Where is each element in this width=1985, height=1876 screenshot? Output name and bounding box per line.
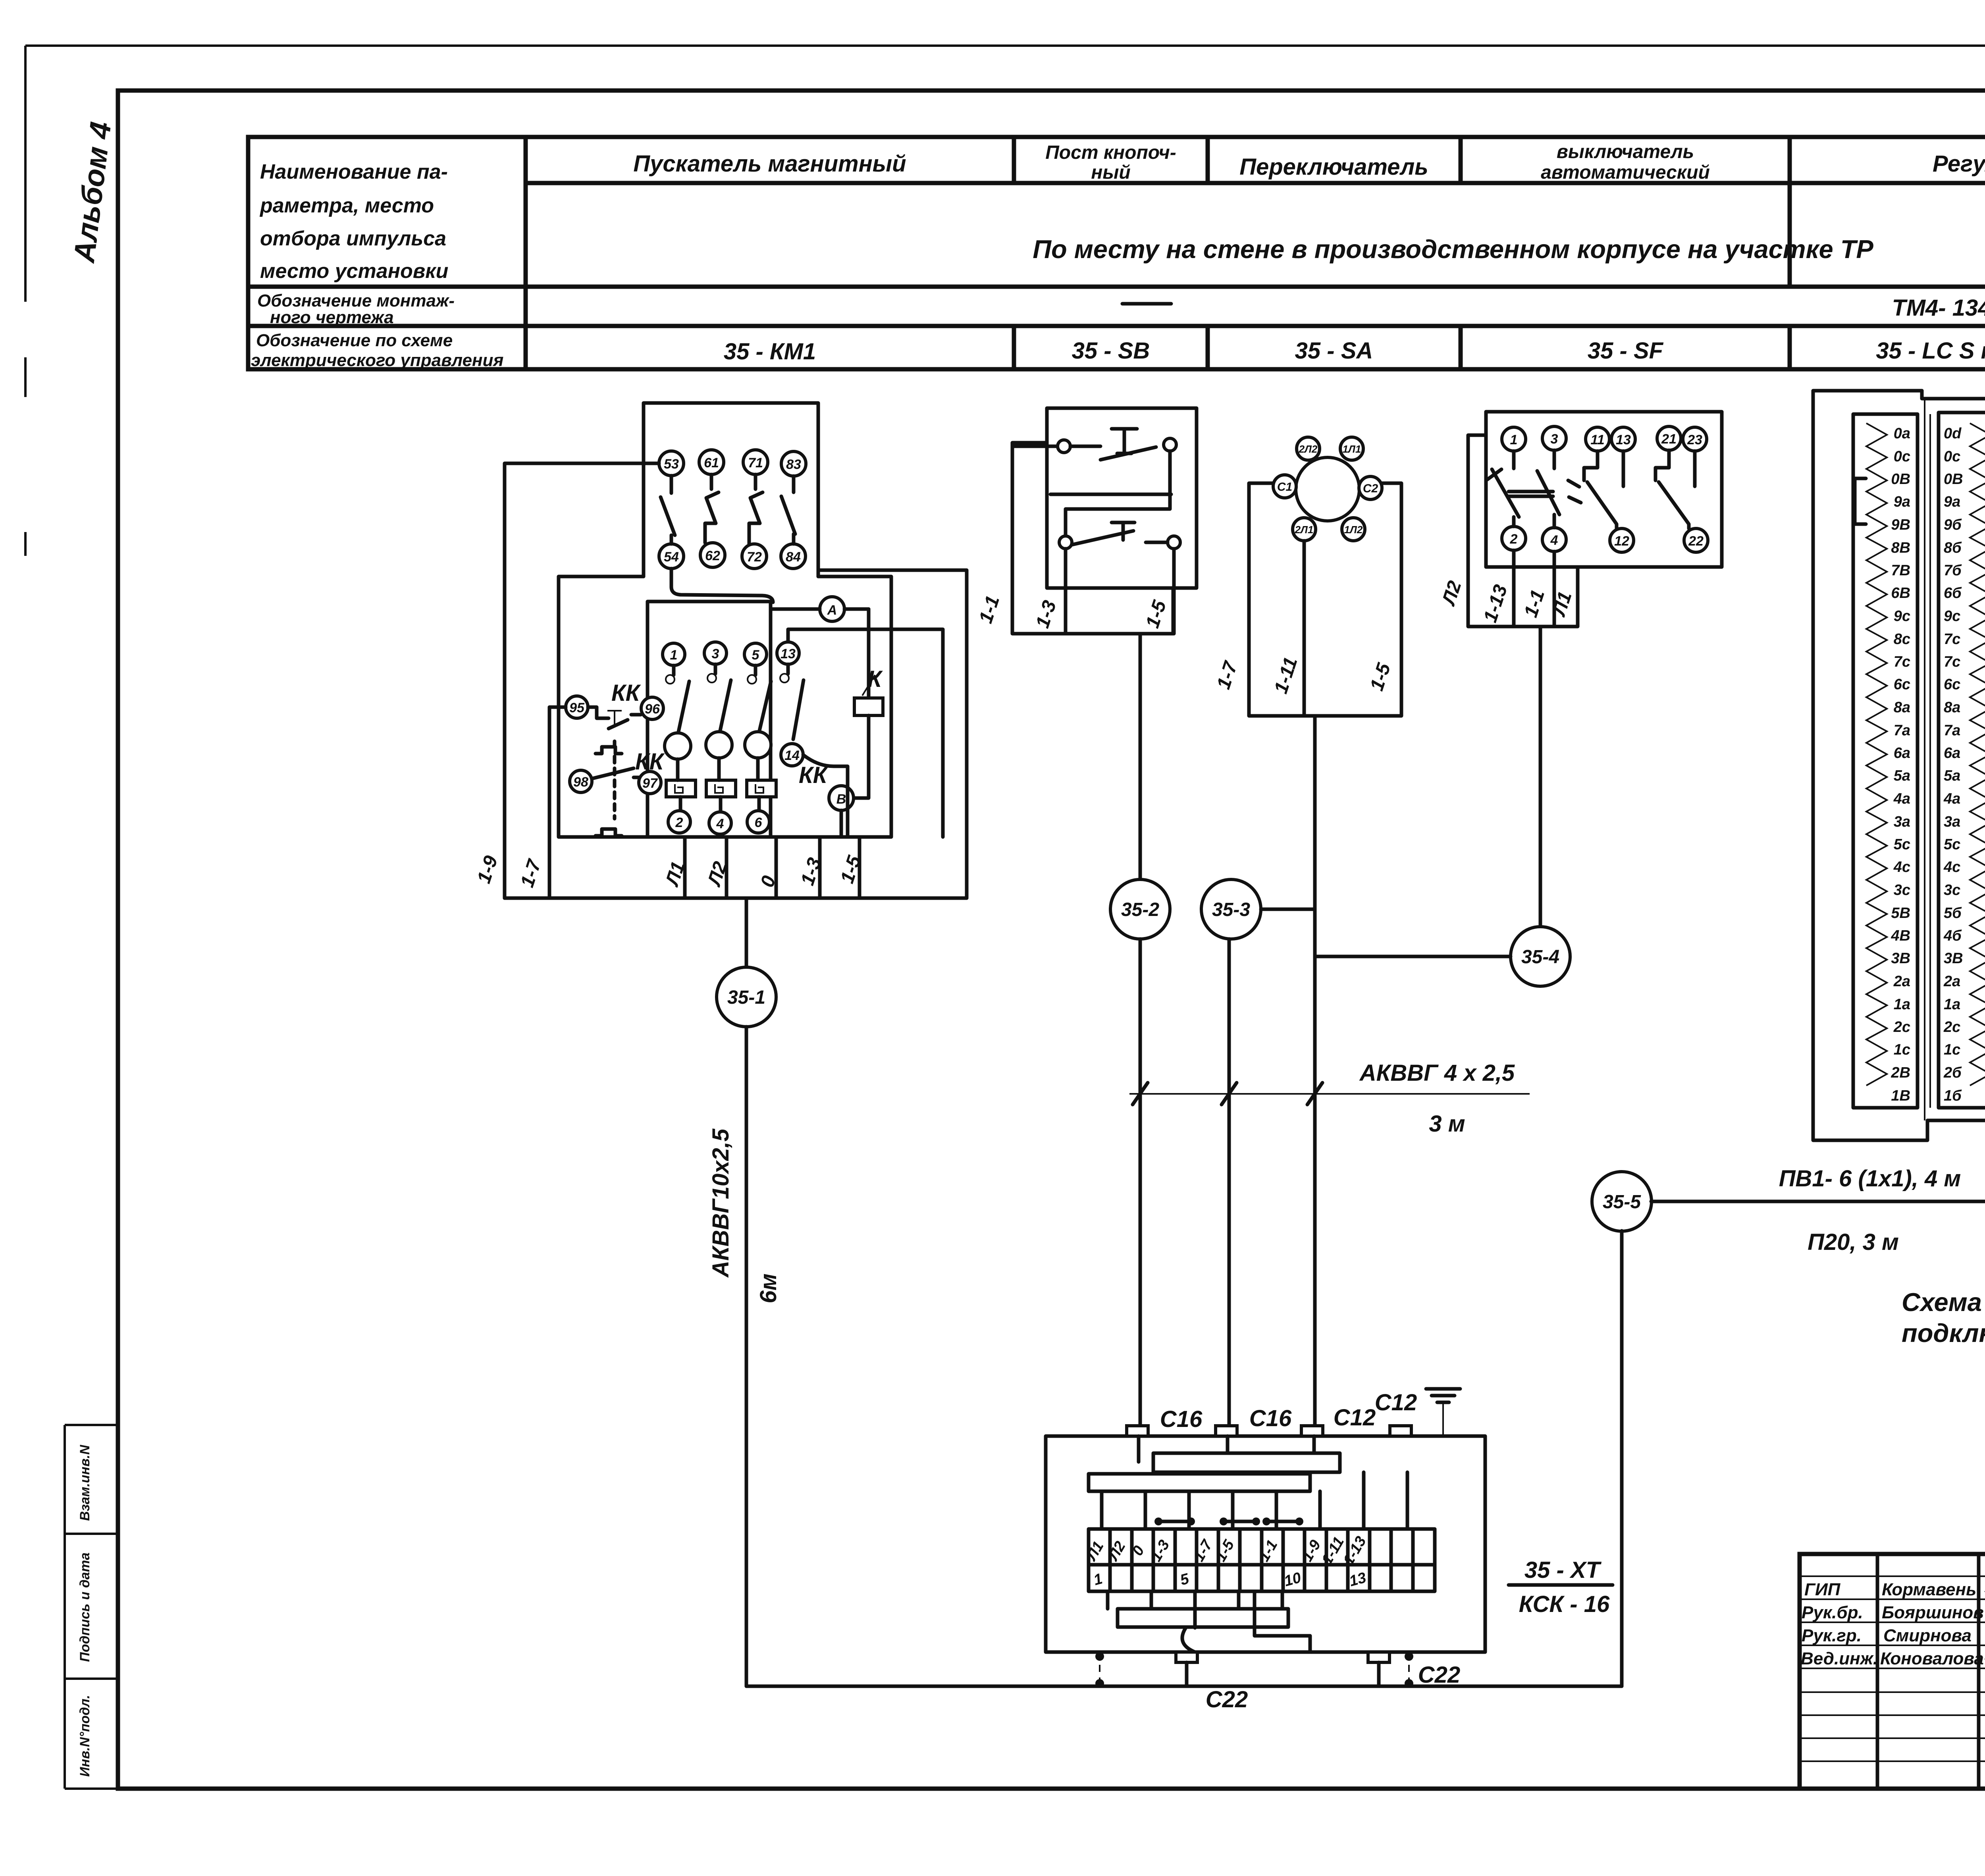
svg-text:1б: 1б — [1944, 1087, 1962, 1104]
svg-text:97: 97 — [642, 776, 658, 791]
svg-text:8В: 8В — [1891, 540, 1910, 556]
svg-text:С12: С12 — [1375, 1390, 1417, 1415]
selector switch 35-SA box — [1249, 483, 1401, 716]
svg-text:9с: 9с — [1894, 608, 1910, 625]
svg-text:96: 96 — [645, 702, 660, 717]
table row label: parameter name — [259, 160, 448, 283]
svg-text:72: 72 — [747, 549, 762, 565]
bottom bus wire — [746, 1685, 1622, 1688]
signature roles — [1801, 1580, 1878, 1668]
svg-text:Регулятор - сигнализатор уро: Регулятор - сигнализатор уровня — [1933, 151, 1985, 177]
svg-text:выключатель: выключатель — [1557, 141, 1694, 162]
aux contact 83-84 — [781, 476, 795, 544]
svg-text:7б: 7б — [1944, 562, 1962, 579]
dashed trip linkage — [613, 756, 617, 819]
wire to stop button — [1012, 445, 1058, 448]
breaker tie bar — [1509, 492, 1553, 496]
svg-text:4б: 4б — [1943, 927, 1962, 944]
svg-text:35-4: 35-4 — [1521, 947, 1559, 968]
svg-text:электрического управления: электрического управления — [251, 351, 504, 370]
svg-text:35 - КМ1: 35 - КМ1 — [724, 339, 816, 364]
stop button NC contact — [1070, 429, 1156, 460]
wire into node A — [771, 607, 869, 611]
wire to 35-1 — [745, 898, 748, 967]
breaker terminal 2 — [1502, 526, 1526, 550]
svg-text:53: 53 — [664, 457, 679, 472]
magnetic starter 35-KM1 aux contact box — [644, 403, 818, 576]
svg-text:1с: 1с — [1944, 1041, 1960, 1058]
pole 3 contact — [714, 664, 717, 674]
svg-text:отбора импульса: отбора импульса — [260, 227, 446, 250]
switch terminal 2L2 — [1297, 437, 1320, 460]
svg-text:1а: 1а — [1944, 996, 1960, 1013]
svg-text:35 - SA: 35 - SA — [1295, 338, 1373, 364]
svg-text:КК: КК — [611, 680, 641, 706]
thermal element pole1 — [666, 780, 696, 797]
svg-text:22: 22 — [1688, 534, 1704, 549]
terminal labels right column — [1943, 425, 1963, 1104]
wire 35-5 down to bottom bus — [1620, 1231, 1624, 1686]
level regulator wrap box top — [1922, 391, 1985, 433]
starter terminal 6 — [747, 811, 769, 833]
connector stub C12a — [1301, 1426, 1323, 1436]
loom bundle upper — [1153, 1453, 1340, 1472]
starter aux terminal 83 — [781, 451, 806, 476]
svg-text:0с: 0с — [1944, 448, 1960, 465]
svg-text:62: 62 — [705, 548, 720, 563]
thermal release contact 95-96 — [588, 707, 641, 729]
svg-text:Коновалова: Коновалова — [1880, 1649, 1984, 1668]
svg-text:По месту на стене в прои: По месту на стене в производственном кор… — [1033, 235, 1873, 264]
breaker terminal 4 — [1542, 528, 1566, 551]
loom bundle lower — [1089, 1474, 1310, 1491]
aux terminal 98 — [570, 770, 592, 792]
start button terminal right — [1168, 536, 1180, 549]
table row label: mounting drawing — [257, 291, 455, 327]
wire top right outer — [818, 570, 967, 898]
heater symbol upper — [595, 741, 622, 754]
svg-text:6с: 6с — [1944, 676, 1960, 693]
thermal element pole5 — [747, 780, 776, 797]
svg-text:9с: 9с — [1944, 608, 1960, 625]
svg-text:6м: 6м — [755, 1273, 781, 1303]
svg-text:5а: 5а — [1944, 767, 1960, 784]
svg-text:Инв.N°подл.: Инв.N°подл. — [77, 1695, 93, 1777]
svg-text:95: 95 — [569, 700, 585, 715]
separator line in button box — [1050, 493, 1171, 496]
aux terminal 14 — [781, 744, 803, 766]
wire push button to 35-2 — [1139, 634, 1142, 879]
circuit breaker 35-SF main box — [1486, 412, 1722, 567]
svg-text:4: 4 — [716, 816, 724, 831]
bottom connector stub C22b — [1368, 1652, 1389, 1662]
svg-text:14: 14 — [784, 748, 800, 763]
svg-text:7а: 7а — [1944, 722, 1960, 739]
left stamp strip cells — [65, 1425, 118, 1789]
cable label PV1-6(1x1) 4m — [1779, 1166, 1961, 1255]
connector stub C16b — [1216, 1426, 1237, 1436]
coil K — [854, 666, 883, 715]
starter terminal 2 — [668, 811, 690, 833]
motor contact circle pole1 — [665, 733, 691, 759]
cable circle 35-2 — [1110, 879, 1170, 939]
svg-text:35 - SF: 35 - SF — [1588, 338, 1664, 364]
wire C22 right to bus — [1377, 1662, 1381, 1686]
switch terminal 1L1 — [1340, 437, 1363, 460]
cable circle 35-1 — [717, 967, 776, 1027]
svg-text:4В: 4В — [1891, 927, 1910, 944]
level regulator 35-LCS outer box — [1813, 391, 1927, 1140]
wire 35-3 down to terminal box — [1228, 939, 1231, 1426]
bottom connector stub C22a — [1176, 1652, 1197, 1662]
svg-text:12: 12 — [1614, 534, 1629, 549]
svg-text:0а: 0а — [1894, 425, 1910, 442]
svg-text:автоматический: автоматический — [1541, 162, 1710, 183]
terminal bridges — [1154, 1517, 1303, 1525]
wire 95 to rail 1-7 — [549, 707, 566, 898]
terminal strip body — [1089, 1529, 1435, 1591]
bottom terminal stub 1-5 — [858, 837, 861, 898]
svg-text:98: 98 — [573, 775, 588, 790]
svg-text:ный: ный — [1091, 162, 1130, 183]
svg-text:7с: 7с — [1944, 631, 1960, 648]
level regulator inner box right — [1939, 413, 1985, 1108]
wire 13 upper right — [788, 629, 943, 837]
cable label AKVVG10x2.5 6m — [708, 1128, 781, 1303]
breaker terminal 13 — [1611, 427, 1635, 451]
selector switch rotor circle — [1296, 457, 1359, 521]
svg-text:1В: 1В — [1891, 1087, 1910, 1104]
svg-text:8б: 8б — [1944, 540, 1962, 556]
starter inner box — [648, 602, 771, 837]
svg-text:2Л1: 2Л1 — [1295, 524, 1314, 536]
start button NO contact — [1072, 523, 1168, 545]
svg-text:2с: 2с — [1943, 1019, 1960, 1035]
wire 54 to coil box — [671, 569, 773, 602]
svg-text:Наименование па-: Наименование па- — [260, 160, 448, 183]
svg-text:4а: 4а — [1943, 791, 1960, 807]
svg-text:7а: 7а — [1894, 722, 1910, 739]
starter aux terminal 54 — [659, 544, 684, 569]
svg-text:3а: 3а — [1944, 814, 1960, 830]
starter terminal 4 — [709, 812, 731, 834]
svg-text:9а: 9а — [1894, 494, 1910, 510]
svg-text:Вед.инж.: Вед.инж. — [1801, 1649, 1878, 1668]
svg-text:0d: 0d — [1944, 425, 1962, 442]
svg-text:2: 2 — [1510, 532, 1518, 547]
wire K to node B — [854, 715, 869, 798]
svg-text:35-2: 35-2 — [1121, 899, 1159, 920]
pole 1 contact — [672, 665, 676, 675]
svg-text:3с: 3с — [1944, 882, 1960, 898]
switch terminal C1 — [1273, 475, 1296, 498]
starter bottom bus — [505, 897, 967, 900]
svg-text:8а: 8а — [1944, 699, 1960, 716]
svg-text:9В: 9В — [1891, 517, 1910, 533]
svg-text:1: 1 — [1510, 432, 1518, 447]
title block outer — [1800, 1554, 1985, 1789]
level regulator inner box left — [1853, 414, 1918, 1108]
pole 13-14 contact — [786, 664, 790, 674]
svg-text:9б: 9б — [1944, 517, 1962, 533]
starter terminal 5 — [744, 643, 767, 665]
svg-text:Рук.гр.: Рук.гр. — [1802, 1626, 1862, 1645]
bottom terminal stub L1 — [683, 837, 687, 898]
cable group mark line — [1129, 1093, 1530, 1095]
svg-text:1а: 1а — [1894, 996, 1910, 1013]
svg-text:1с: 1с — [1894, 1041, 1910, 1058]
aux contact 53-54 — [661, 476, 675, 544]
thermal element pole3 — [706, 780, 736, 797]
svg-text:В: В — [836, 792, 846, 807]
svg-text:ного чертежа: ного чертежа — [270, 308, 394, 327]
circuit breaker sub box — [1468, 435, 1578, 627]
svg-text:5а: 5а — [1894, 767, 1910, 784]
aux contact 61-62 — [705, 474, 719, 543]
svg-text:3: 3 — [712, 646, 719, 661]
svg-text:Подпись и дата: Подпись и дата — [77, 1552, 93, 1662]
svg-text:ПВ1- 6 (1х1), 4 м: ПВ1- 6 (1х1), 4 м — [1779, 1166, 1961, 1192]
svg-text:23: 23 — [1687, 432, 1702, 447]
stop button terminal left — [1058, 440, 1070, 453]
svg-text:3 м: 3 м — [1429, 1111, 1465, 1137]
svg-text:2Л2: 2Л2 — [1299, 443, 1318, 455]
terminal strip wire labels — [1083, 1534, 1370, 1568]
svg-text:Бояршинов: Бояршинов — [1882, 1603, 1984, 1622]
wire tails into loom — [1139, 1436, 1314, 1462]
svg-text:Переключатель: Переключатель — [1239, 154, 1428, 180]
push button station 35-SB box upper — [1047, 408, 1197, 588]
starter main box — [559, 576, 891, 837]
motor contact circle pole3 — [706, 732, 732, 758]
aux terminal 95 — [566, 696, 588, 718]
wire B down — [840, 810, 843, 837]
starter aux terminal 84 — [781, 544, 806, 569]
svg-text:35-5: 35-5 — [1603, 1192, 1641, 1213]
breaker terminal 11 — [1586, 427, 1609, 451]
starter aux terminal 53 — [659, 451, 684, 476]
svg-text:5б: 5б — [1944, 905, 1962, 922]
switch terminal C2 — [1359, 476, 1382, 499]
wires aux bottom — [1514, 550, 1554, 627]
starter aux terminal 72 — [742, 544, 767, 569]
breaker terminal 1 — [1502, 427, 1526, 451]
NC contact 98-97 — [592, 768, 639, 779]
svg-text:С2: С2 — [1363, 482, 1378, 495]
svg-text:6б: 6б — [1944, 585, 1962, 602]
loom drop wires — [1102, 1472, 1407, 1529]
svg-text:АКВВГ10х2,5: АКВВГ10х2,5 — [708, 1128, 734, 1278]
svg-text:1Л2: 1Л2 — [1344, 524, 1363, 536]
svg-text:61: 61 — [704, 455, 719, 470]
wire switch drop to terminal box — [1313, 716, 1317, 1426]
node A circle — [820, 597, 844, 621]
wire 53 to left rail 1-9 — [505, 463, 659, 898]
wire 14 to right — [803, 755, 848, 837]
svg-text:6а: 6а — [1944, 745, 1960, 762]
svg-text:4с: 4с — [1893, 859, 1910, 875]
svg-text:84: 84 — [786, 549, 801, 565]
wire C22 left to bus — [1185, 1662, 1189, 1686]
stop button terminal right — [1164, 438, 1176, 451]
svg-text:С22: С22 — [1206, 1687, 1248, 1712]
svg-text:С12: С12 — [1334, 1405, 1376, 1431]
svg-text:4с: 4с — [1943, 859, 1960, 875]
svg-text:место установки: место установки — [260, 260, 448, 283]
svg-text:2а: 2а — [1943, 973, 1960, 990]
svg-text:54: 54 — [664, 549, 679, 565]
level regulator middle gap lines — [1925, 399, 1930, 1120]
starter terminal 13 — [777, 642, 799, 664]
connector stub C16a — [1127, 1426, 1148, 1436]
svg-text:0с: 0с — [1894, 448, 1910, 465]
svg-text:5В: 5В — [1891, 905, 1910, 922]
table row label: designation in control diagram — [251, 331, 504, 370]
terminal labels left column — [1891, 425, 1910, 1104]
svg-text:7с: 7с — [1894, 654, 1910, 670]
svg-text:1: 1 — [670, 648, 678, 663]
wire 35-4 link left — [1315, 955, 1511, 958]
starter aux terminal 71 — [743, 450, 768, 474]
title block signature grid — [1800, 1554, 1985, 1789]
start button terminal left — [1059, 536, 1072, 549]
wire A to coil K — [867, 609, 871, 698]
aux terminal 96 — [641, 697, 663, 719]
svg-text:2В: 2В — [1891, 1064, 1910, 1081]
left column jumper bracket — [1855, 478, 1866, 524]
svg-text:8а: 8а — [1894, 699, 1910, 716]
svg-text:35 - LC S поз. 1: 35 - LC S поз. 1 — [1876, 338, 1985, 364]
svg-text:21: 21 — [1661, 432, 1677, 447]
cable label AKVVG 4x2.5 3m — [1359, 1060, 1515, 1137]
wire start button down — [1066, 549, 1174, 634]
left column resistor zigzag — [1866, 423, 1887, 1085]
push button station box lower — [1012, 443, 1173, 634]
bottom terminal stub 1-3 — [818, 837, 822, 898]
svg-text:3В: 3В — [1891, 950, 1910, 967]
svg-text:6: 6 — [755, 815, 763, 830]
wire 35-5 to regulator — [1651, 1200, 1985, 1203]
svg-text:ГИП: ГИП — [1804, 1580, 1841, 1599]
junction dash-dot left — [1095, 1652, 1104, 1688]
svg-text:35-1: 35-1 — [727, 987, 765, 1008]
svg-text:6В: 6В — [1891, 585, 1910, 602]
svg-text:А: А — [827, 603, 837, 618]
right column resistor zigzag — [1970, 423, 1985, 1085]
terminal strip numbers — [1092, 1569, 1368, 1590]
starter aux terminal 62 — [700, 543, 725, 567]
wire 35-3 link to switch drop — [1261, 908, 1315, 911]
svg-text:3с: 3с — [1894, 882, 1910, 898]
svg-text:ТМ4- 134 -86: ТМ4- 134 -86 — [1892, 295, 1985, 321]
svg-text:1Л1: 1Л1 — [1343, 443, 1361, 455]
svg-text:7В: 7В — [1891, 562, 1910, 579]
sheet outer thin border top — [25, 44, 1985, 47]
starter aux terminal 61 — [699, 450, 724, 474]
svg-text:5с: 5с — [1894, 836, 1910, 853]
svg-text:К: К — [867, 666, 883, 692]
level regulator bottom steps — [1927, 1108, 1985, 1120]
aux contact 71-72 — [749, 474, 763, 544]
switch terminal 2L1 — [1293, 518, 1316, 541]
pole 5 contact — [754, 665, 757, 675]
svg-text:6а: 6а — [1894, 745, 1910, 762]
svg-text:Кормавень: Кормавень — [1882, 1580, 1976, 1599]
breaker terminal 23 — [1683, 427, 1707, 451]
svg-text:Рук.бр.: Рук.бр. — [1802, 1603, 1863, 1622]
svg-text:Обозначение по схеме: Обозначение по схеме — [256, 331, 453, 350]
svg-text:4: 4 — [1550, 533, 1558, 548]
breaker aux contact 21-22 — [1655, 450, 1695, 528]
cable AKVVG10x2.5 wire down — [745, 1027, 748, 1686]
svg-text:КК: КК — [799, 762, 829, 788]
svg-text:Взам.инв.N: Взам.инв.N — [77, 1444, 93, 1521]
svg-text:С22: С22 — [1418, 1662, 1460, 1688]
signature names — [1880, 1580, 1984, 1668]
sheet outer thin border left (broken) — [24, 46, 27, 556]
svg-text:2б: 2б — [1943, 1064, 1962, 1081]
svg-text:35-3: 35-3 — [1212, 899, 1250, 920]
svg-text:11: 11 — [1590, 432, 1604, 447]
svg-text:13: 13 — [781, 646, 796, 661]
svg-text:5: 5 — [752, 648, 760, 663]
svg-text:3В: 3В — [1944, 950, 1963, 967]
breaker terminal 21 — [1657, 426, 1681, 450]
bottom terminal stub L2 — [725, 837, 728, 898]
wire 35-2 down to terminal box — [1139, 939, 1142, 1426]
svg-text:С16: С16 — [1249, 1406, 1292, 1431]
connector stub C12b — [1390, 1426, 1411, 1436]
heater symbol lower — [595, 829, 622, 836]
svg-text:2с: 2с — [1893, 1019, 1910, 1035]
table header: automatic circuit breaker — [1541, 141, 1710, 183]
breaker pole 3-4 blade — [1537, 450, 1581, 528]
terminal box enclosure — [1046, 1436, 1485, 1652]
svg-text:8с: 8с — [1894, 631, 1910, 648]
svg-text:7с: 7с — [1944, 654, 1960, 670]
svg-text:С16: С16 — [1160, 1406, 1203, 1432]
wires thermal to bottom terminals — [680, 797, 759, 812]
svg-text:Смирнова: Смирнова — [1883, 1626, 1972, 1645]
svg-text:Схема выполнена на основании с: Схема выполнена на основании схемы — [1902, 1288, 1985, 1317]
node B circle — [829, 786, 854, 810]
svg-text:П20, 3 м: П20, 3 м — [1808, 1229, 1899, 1255]
cable circle 35-3 — [1201, 879, 1261, 939]
svg-text:подключения лист 2.: подключения лист 2. — [1902, 1319, 1985, 1348]
svg-text:раметра, место: раметра, место — [259, 194, 434, 217]
bottom terminal stub 0 — [775, 837, 778, 898]
svg-text:6с: 6с — [1894, 676, 1910, 693]
svg-text:4а: 4а — [1893, 791, 1910, 807]
svg-text:0В: 0В — [1944, 471, 1963, 488]
svg-text:Пост кнопоч-: Пост кнопоч- — [1045, 142, 1176, 163]
svg-text:35 - ХТ: 35 - ХТ — [1524, 1557, 1602, 1583]
svg-text:АКВВГ 4 х 2,5: АКВВГ 4 х 2,5 — [1359, 1060, 1515, 1086]
parameter table frame — [248, 137, 1985, 369]
loom below strip — [1108, 1591, 1282, 1628]
junction dash-dot right — [1405, 1652, 1413, 1688]
svg-text:КСК - 16: КСК - 16 — [1519, 1591, 1610, 1617]
svg-text:2а: 2а — [1893, 973, 1910, 990]
svg-text:3а: 3а — [1894, 814, 1910, 830]
starter terminal 3 — [704, 642, 727, 664]
table cell: dash for starter mounting drawing — [1122, 302, 1171, 306]
aux terminal 97 — [639, 771, 661, 794]
svg-text:3: 3 — [1551, 432, 1558, 447]
wire breaker to 35-4 — [1539, 627, 1542, 927]
breaker pole 1-2 blade — [1487, 451, 1519, 526]
starter terminal 1 — [663, 643, 685, 665]
